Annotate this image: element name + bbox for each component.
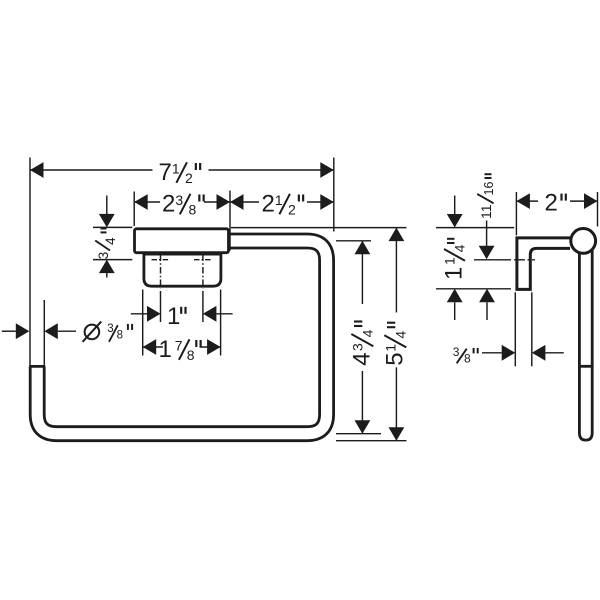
svg-text:1: 1 bbox=[172, 160, 180, 176]
dim 1-7/8 arrow right bbox=[207, 339, 221, 355]
svg-text:5: 5 bbox=[382, 352, 409, 365]
svg-text:2: 2 bbox=[185, 170, 193, 186]
svg-text:7: 7 bbox=[159, 159, 172, 186]
svg-text:4: 4 bbox=[103, 237, 118, 245]
dim 5-1/4 arrow up bbox=[389, 228, 405, 242]
dim dia-3/8 extension line inner bbox=[43, 300, 45, 365]
svg-text:2: 2 bbox=[288, 202, 296, 218]
svg-text:8: 8 bbox=[189, 202, 197, 218]
side view: mount pivot circle bbox=[571, 229, 596, 254]
screw cross dash left bbox=[152, 259, 170, 261]
dim 3/8 extension right bbox=[531, 292, 533, 366]
dim 1-1/4 arrow down bbox=[447, 214, 463, 228]
dim 2-3/8 line bbox=[134, 201, 160, 203]
ext line circle-top level bbox=[436, 227, 514, 229]
dim 1 tail right bbox=[216, 313, 232, 315]
dim 7-1/2 arrow left bbox=[30, 162, 44, 178]
label 11/16 rotated bbox=[477, 174, 496, 219]
dim 2 line bbox=[516, 200, 538, 202]
dim dia-3/8 tail right bbox=[58, 330, 76, 332]
label 1-7/8 bbox=[159, 336, 201, 363]
dim 1-7/8 extension line left bbox=[142, 290, 144, 356]
ext line screw level bbox=[474, 259, 511, 261]
label 4-3/4 rotated bbox=[349, 322, 376, 366]
svg-text:2: 2 bbox=[162, 191, 175, 218]
label 1-1/4 rotated bbox=[441, 239, 468, 280]
label 2-3/8 bbox=[162, 191, 204, 218]
dim 11/16 arrow up bbox=[479, 289, 495, 303]
svg-text:3: 3 bbox=[453, 345, 460, 359]
label 3/4 rotated bbox=[95, 229, 118, 260]
dim 7-1/2 extension line left bbox=[29, 158, 31, 367]
dim 4-3/4 extension line bottom bbox=[336, 433, 381, 435]
svg-text:4: 4 bbox=[452, 244, 468, 252]
dim 3/4 leader top bbox=[106, 196, 108, 223]
dim dia-3/8 arrow left-pointing bbox=[44, 323, 58, 339]
dim 2-1/2 arrow right bbox=[320, 194, 334, 210]
svg-text:1: 1 bbox=[159, 336, 172, 363]
svg-text:4: 4 bbox=[349, 352, 376, 365]
svg-text:11: 11 bbox=[478, 204, 494, 219]
dim 4-3/4 arrow up bbox=[355, 241, 371, 255]
dim 1-7/8 arrow left bbox=[143, 339, 157, 355]
label 2-1/2 bbox=[262, 191, 304, 218]
svg-text:4: 4 bbox=[393, 331, 409, 339]
dim 3/4 extension line top bbox=[93, 226, 132, 228]
svg-text:16: 16 bbox=[482, 182, 496, 196]
dim 1-7/8 line bbox=[143, 346, 163, 348]
side view: ring tube (vertical bar) bbox=[579, 246, 592, 440]
dim 2-3/8 arrow right bbox=[217, 194, 231, 210]
dim 2 extension right bbox=[597, 192, 599, 227]
svg-text:2: 2 bbox=[545, 190, 558, 217]
dim 2 arrow right bbox=[584, 193, 598, 209]
dim 3/8 arrow pointing left bbox=[532, 345, 546, 361]
side view: wall bracket bbox=[517, 238, 570, 290]
svg-text:8: 8 bbox=[464, 352, 471, 366]
dim 1 extension line right bbox=[202, 291, 204, 322]
dim 3/4 leader bottom bbox=[106, 273, 108, 278]
dim dia-3/8 arrow right-pointing bbox=[16, 323, 30, 339]
screw cross dash right bbox=[194, 259, 212, 261]
svg-text:1: 1 bbox=[167, 303, 180, 330]
svg-text:4: 4 bbox=[360, 329, 376, 337]
dim 2-3/8 / 2-1/2 shared extension line bbox=[229, 191, 231, 251]
label 7-1/2 bbox=[159, 159, 201, 186]
mount body (lower block) bbox=[144, 254, 221, 286]
svg-text:8: 8 bbox=[187, 347, 195, 363]
dim 3/8 arrow pointing right bbox=[502, 345, 516, 361]
ring tube open end cap bbox=[29, 365, 45, 368]
dim 3/4 extension line bottom bbox=[93, 259, 132, 261]
svg-text:1: 1 bbox=[275, 192, 283, 208]
dim 3/8 tail left bbox=[482, 352, 502, 354]
dim 1-1/4 leader top bbox=[454, 196, 456, 215]
dim dia-3/8 tail left bbox=[2, 330, 16, 332]
dim 4-3/4 line bbox=[361, 241, 363, 304]
dim 3/8 tail right bbox=[545, 352, 563, 354]
svg-text:3: 3 bbox=[175, 192, 183, 208]
dim 3/4 arrow up bbox=[99, 260, 115, 274]
svg-text:7: 7 bbox=[175, 337, 183, 353]
side view: tube end cap line bbox=[578, 365, 594, 368]
label dia 3/8 bbox=[85, 325, 100, 340]
dim 7-1/2 extension line right bbox=[333, 158, 335, 232]
dim 2-1/2 line bbox=[230, 201, 259, 203]
dim 11/16 leader bbox=[486, 221, 488, 247]
dim 3/4 arrow down bbox=[99, 214, 115, 228]
dim 5-1/4 extension line bottom bbox=[336, 440, 407, 442]
dim 4-3/4 extension line top bbox=[336, 240, 371, 242]
dim 1 arrow left bbox=[147, 306, 161, 322]
svg-text:1: 1 bbox=[383, 344, 399, 352]
dim 2-3/8 arrow left bbox=[134, 194, 148, 210]
dim 2 extension left bbox=[515, 192, 517, 235]
dim 1 arrow right bbox=[203, 306, 217, 322]
svg-text:3: 3 bbox=[350, 343, 366, 351]
dim 2-1/2 arrow left bbox=[230, 194, 244, 210]
dim 1-1/4 tail below bbox=[454, 302, 456, 320]
dim 11/16 tail below bbox=[486, 302, 488, 320]
dim 11/16 arrow down bbox=[479, 246, 495, 260]
screw centerline left (dash-dot) bbox=[160, 255, 162, 289]
dim 5-1/4 line bbox=[395, 228, 397, 313]
side view screw centerline (dash-dot) bbox=[514, 259, 535, 261]
dim 5-1/4 arrow down bbox=[389, 427, 405, 441]
svg-text:3: 3 bbox=[96, 252, 111, 260]
svg-text:2: 2 bbox=[262, 191, 275, 218]
dim 2-3/8 extension line left bbox=[133, 192, 135, 227]
dim 1 extension line left bbox=[160, 291, 162, 322]
svg-text:8: 8 bbox=[117, 330, 123, 342]
dim 2 arrow left bbox=[516, 193, 530, 209]
svg-text:1: 1 bbox=[441, 267, 468, 280]
dim 1 tail left bbox=[131, 313, 147, 315]
mount plate (cover) bbox=[135, 229, 229, 253]
dim 3/8 extension left bbox=[514, 292, 516, 366]
towel ring front view: ring tube outline bbox=[37, 241, 326, 434]
dim 7-1/2 line bbox=[30, 169, 153, 171]
ext line bracket bottom level bbox=[436, 288, 511, 290]
svg-text:1: 1 bbox=[442, 257, 458, 265]
label 5-1/4 rotated bbox=[382, 323, 409, 366]
dim 1-7/8 extension line right bbox=[220, 290, 222, 356]
dim 5-1/4 extension line top bbox=[231, 227, 407, 229]
dim 7-1/2 arrow right bbox=[320, 162, 334, 178]
screw centerline right (dash-dot) bbox=[202, 255, 204, 289]
dim 1-1/4 arrow up bbox=[447, 289, 463, 303]
dim 4-3/4 arrow down bbox=[355, 420, 371, 434]
